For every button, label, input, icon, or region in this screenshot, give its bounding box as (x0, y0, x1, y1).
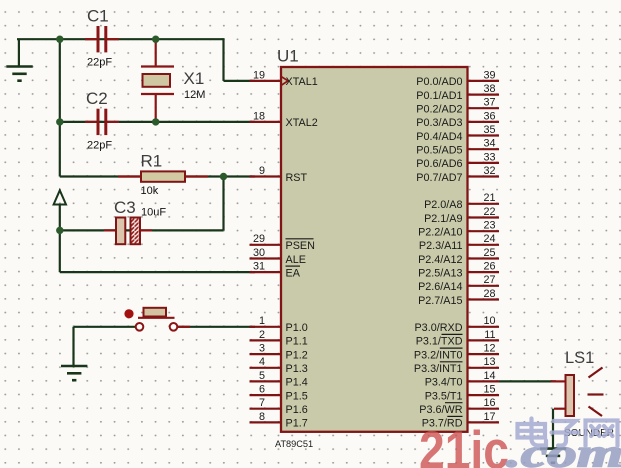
svg-text:2: 2 (259, 329, 265, 341)
svg-text:39: 39 (483, 69, 495, 81)
svg-text:1: 1 (259, 315, 265, 327)
svg-text:10: 10 (483, 315, 495, 327)
svg-text:P3.1/TXD: P3.1/TXD (416, 336, 463, 348)
svg-text:9: 9 (259, 165, 265, 177)
svg-text:P0.3/AD3: P0.3/AD3 (416, 117, 462, 129)
svg-text:P0.2/AD2: P0.2/AD2 (416, 104, 462, 116)
svg-text:C3: C3 (114, 198, 136, 217)
svg-text:11: 11 (484, 329, 495, 341)
svg-text:10k: 10k (141, 185, 159, 197)
svg-text:X1: X1 (184, 69, 205, 88)
svg-text:38: 38 (483, 83, 495, 95)
svg-text:P2.3/A11: P2.3/A11 (419, 240, 463, 252)
svg-text:8: 8 (259, 411, 265, 423)
svg-text:P0.1/AD1: P0.1/AD1 (416, 90, 462, 102)
svg-text:P1.0: P1.0 (286, 322, 308, 334)
svg-text:5: 5 (259, 370, 265, 382)
svg-text:P1.4: P1.4 (286, 377, 308, 389)
svg-text:21ic: 21ic (419, 421, 509, 468)
svg-text:P3.2/INT0: P3.2/INT0 (414, 349, 463, 361)
svg-text:12: 12 (483, 343, 495, 355)
svg-text:P3.5/T1: P3.5/T1 (425, 390, 463, 402)
svg-text:XTAL2: XTAL2 (286, 117, 318, 129)
svg-text:R1: R1 (141, 151, 163, 170)
svg-text:19: 19 (253, 69, 265, 81)
svg-text:29: 29 (253, 233, 265, 245)
svg-text:P1.5: P1.5 (286, 390, 308, 402)
svg-text:34: 34 (483, 138, 495, 150)
svg-text:37: 37 (483, 97, 495, 109)
svg-text:C1: C1 (87, 7, 109, 26)
svg-text:P2.5/A13: P2.5/A13 (418, 267, 462, 279)
svg-text:36: 36 (483, 110, 495, 122)
svg-text:23: 23 (483, 220, 495, 232)
svg-text:P1.2: P1.2 (286, 349, 308, 361)
svg-text:P3.3/INT1: P3.3/INT1 (414, 363, 463, 375)
svg-text:P2.4/A12: P2.4/A12 (418, 254, 462, 266)
svg-text:21: 21 (483, 192, 495, 204)
svg-text:25: 25 (483, 247, 495, 259)
svg-text:XTAL1: XTAL1 (286, 76, 318, 88)
svg-text:35: 35 (483, 124, 495, 136)
svg-text:4: 4 (259, 356, 265, 368)
svg-text:P0.0/AD0: P0.0/AD0 (416, 76, 462, 88)
svg-text:P2.7/A15: P2.7/A15 (418, 295, 462, 307)
svg-text:13: 13 (483, 356, 495, 368)
svg-text:18: 18 (253, 110, 265, 122)
svg-text:RST: RST (286, 172, 308, 184)
svg-text:P0.7/AD7: P0.7/AD7 (416, 172, 462, 184)
svg-text:EA: EA (286, 267, 301, 279)
svg-text:P1.7: P1.7 (286, 418, 308, 430)
svg-text:P0.6/AD6: P0.6/AD6 (416, 158, 462, 170)
svg-text:7: 7 (259, 397, 265, 409)
svg-text:10uF: 10uF (141, 207, 166, 219)
svg-text:P0.4/AD4: P0.4/AD4 (416, 131, 462, 143)
svg-text:16: 16 (483, 397, 495, 409)
svg-text:P2.2/A10: P2.2/A10 (418, 227, 462, 239)
svg-text:3: 3 (259, 343, 265, 355)
svg-text:22pF: 22pF (87, 139, 112, 151)
svg-text:30: 30 (253, 247, 265, 259)
svg-text:P3.0/RXD: P3.0/RXD (414, 322, 462, 334)
svg-text:LS1: LS1 (565, 349, 594, 367)
svg-text:26: 26 (483, 261, 495, 273)
svg-text:P2.1/A9: P2.1/A9 (424, 213, 462, 225)
svg-text:P0.5/AD5: P0.5/AD5 (416, 145, 462, 157)
svg-text:24: 24 (483, 233, 495, 245)
svg-text:28: 28 (483, 288, 495, 300)
svg-text:31: 31 (253, 261, 265, 273)
svg-text:15: 15 (483, 384, 495, 396)
svg-text:33: 33 (483, 151, 495, 163)
svg-text:6: 6 (259, 384, 265, 396)
svg-text:P3.4/T0: P3.4/T0 (425, 377, 463, 389)
svg-text:P2.6/A14: P2.6/A14 (418, 281, 462, 293)
svg-text:12M: 12M (184, 89, 205, 101)
svg-text:22pF: 22pF (87, 57, 112, 69)
svg-text:C2: C2 (86, 89, 108, 108)
svg-text:PSEN: PSEN (286, 240, 315, 252)
svg-text:22: 22 (483, 206, 495, 218)
svg-text:P3.6/WR: P3.6/WR (419, 404, 462, 416)
svg-text:27: 27 (483, 274, 495, 286)
svg-text:P1.1: P1.1 (286, 336, 308, 348)
svg-text:P1.3: P1.3 (286, 363, 308, 375)
svg-text:ALE: ALE (286, 254, 306, 266)
svg-text:32: 32 (483, 165, 495, 177)
svg-text:14: 14 (483, 370, 495, 382)
svg-text:U1: U1 (277, 47, 299, 66)
svg-text:AT89C51: AT89C51 (275, 439, 313, 449)
svg-text:P2.0/A8: P2.0/A8 (424, 199, 462, 211)
svg-text:P1.6: P1.6 (286, 404, 308, 416)
